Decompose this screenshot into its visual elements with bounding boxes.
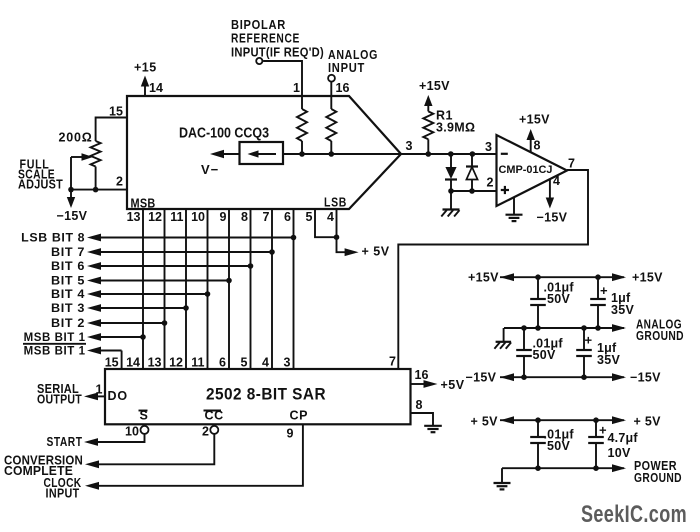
label ANALOG GROUND — [636, 318, 684, 344]
junction bit row to column pin 13 — [140, 334, 146, 340]
label C4 1uf 35V — [597, 341, 621, 367]
junction C5 to +5V rail — [535, 417, 541, 423]
svg-text:12: 12 — [148, 210, 162, 224]
svg-text:+15V: +15V — [468, 271, 499, 285]
capacitor C5 .01uf 50V — [530, 420, 546, 468]
pin 7 label comparator — [568, 156, 575, 170]
junction pin16 resistor to summing line — [329, 151, 335, 157]
node label BIT 7 — [51, 245, 85, 259]
pin 14 label — [149, 81, 163, 95]
label DO — [108, 389, 128, 403]
svg-text:35V: 35V — [597, 353, 621, 367]
node label LSB BIT 8 — [21, 231, 85, 245]
svg-text:BIT 3: BIT 3 — [51, 301, 85, 315]
pin 2 label comparator — [487, 176, 494, 190]
junction C6 to +5V rail — [593, 417, 599, 423]
wire DAC pin 12 column to SAR — [164, 209, 166, 369]
node label MSB BIT 1 — [24, 330, 86, 344]
svg-text:4.7μf: 4.7μf — [608, 431, 639, 445]
op-amp U3 CMP-01CJ outline — [497, 135, 568, 206]
svg-text:2: 2 — [116, 175, 123, 189]
svg-text:+: + — [600, 283, 608, 298]
svg-text:50V: 50V — [547, 439, 571, 453]
label LSB — [324, 196, 347, 210]
node label ANALOG INPUT — [328, 48, 378, 75]
resistor R1 3.9M — [419, 79, 450, 154]
wire DAC pin 13 column to SAR — [142, 209, 144, 369]
wire bit row BIT 4 — [87, 290, 208, 298]
junction pot bottom and pin2 wire — [93, 187, 99, 193]
wire comparator pin 4 to -15V — [537, 179, 568, 225]
label C3 .01uf 50V — [533, 337, 564, 363]
junction R1 to summing line — [426, 151, 432, 157]
junction bit row to column pin 6 — [291, 235, 297, 241]
svg-text:1: 1 — [293, 81, 300, 95]
rail -15V — [500, 373, 626, 381]
label S inverted — [139, 409, 148, 423]
junction wiper and pin2 wire — [68, 187, 74, 193]
wire DAC pin 9 column to SAR — [228, 209, 230, 369]
label +5V rail right — [634, 415, 662, 429]
terminal bipolar reference input — [256, 58, 262, 64]
node label SERIAL OUTPUT — [37, 382, 82, 407]
diode D1 — [445, 154, 457, 191]
junction C5 to power ground rail — [535, 465, 541, 471]
IC U2 2502 8-BIT SAR outline — [105, 369, 411, 424]
svg-text:DAC-100 CCQ3: DAC-100 CCQ3 — [179, 126, 269, 142]
capacitor C1 .01uf 50V — [530, 277, 546, 328]
terminal analog input — [328, 75, 335, 82]
wire bipolar input to pin 1 — [263, 61, 302, 96]
svg-text:7: 7 — [263, 210, 270, 224]
label FULL SCALE ADJUST — [18, 158, 63, 192]
svg-text:2: 2 — [487, 176, 494, 190]
pin 3 label DAC output — [406, 139, 413, 153]
wire bit row BIT 5 — [87, 277, 229, 285]
pin 16 label — [336, 81, 350, 95]
power -15V arrow below pot — [57, 190, 88, 223]
svg-text:16: 16 — [415, 368, 429, 382]
pin 8 label comparator — [534, 139, 541, 153]
node label START — [47, 435, 83, 449]
svg-text:8: 8 — [416, 398, 423, 412]
junction diode D1 bottom — [448, 188, 454, 194]
DAC bottom pin number labels 13-4 — [127, 210, 334, 224]
svg-text:BIT 4: BIT 4 — [51, 287, 85, 301]
pin 9 label — [287, 427, 294, 441]
svg-text:4: 4 — [553, 174, 560, 188]
svg-text:SeekIC.com: SeekIC.com — [581, 501, 687, 528]
junction bit row to column pin 12 — [162, 320, 168, 326]
junction C2 to +15V rail — [595, 274, 601, 280]
ground SAR pin 8 — [424, 426, 442, 432]
svg-text:BIT 5: BIT 5 — [51, 274, 85, 288]
wire DAC pin 10 column to SAR — [207, 209, 209, 369]
wire comparator pin 8 to +15V — [519, 113, 550, 153]
svg-text:5: 5 — [306, 210, 313, 224]
svg-text:2502 8-BIT SAR: 2502 8-BIT SAR — [206, 386, 326, 404]
svg-text:10: 10 — [125, 425, 139, 439]
junction C6 to power ground rail — [593, 465, 599, 471]
label C2 1uf 35V — [611, 291, 635, 317]
capacitor C4 1uf 35V polarized — [576, 328, 592, 377]
label +15V rail right — [632, 271, 663, 285]
V- output box — [240, 142, 284, 164]
wire diode bottoms to comparator pin 2 — [451, 190, 497, 192]
label DAC-100 CCQ3 — [179, 126, 269, 142]
junction C3 to -15V rail — [521, 374, 527, 380]
svg-text:−15V: −15V — [537, 211, 568, 225]
label C1 .01uf 50V — [544, 281, 575, 307]
svg-text:5: 5 — [241, 356, 248, 370]
pin 1 label SAR — [96, 383, 103, 397]
label V- — [201, 162, 219, 177]
pin 15 label — [109, 105, 123, 119]
wire analog ground to chassis — [503, 328, 505, 342]
label -15V rail right — [630, 371, 661, 385]
label C5 .01uf 50V — [544, 428, 575, 454]
wire DAC pin 11 column to SAR — [185, 209, 187, 369]
svg-text:+15V: +15V — [419, 79, 450, 93]
svg-text:+ 5V: + 5V — [362, 244, 390, 258]
label + 5V at DAC pin 4 — [362, 244, 390, 258]
rail +15V — [500, 273, 626, 281]
pin 10 label — [125, 425, 139, 439]
capacitor C2 1uf 35V polarized — [590, 277, 608, 328]
wire pin 2 to pot bottom — [71, 167, 127, 190]
svg-text:3: 3 — [485, 140, 492, 154]
svg-text:REFERENCE: REFERENCE — [231, 32, 300, 46]
wire serial output — [84, 393, 105, 401]
svg-text:6: 6 — [284, 210, 291, 224]
svg-text:LSB BIT 8: LSB BIT 8 — [21, 231, 85, 245]
ground earth power — [494, 483, 511, 489]
wire bit row MSB BIT 1 — [87, 333, 143, 341]
label MSB — [131, 196, 156, 210]
wire pin 15 to potentiometer — [96, 118, 127, 142]
rail analog ground — [504, 324, 626, 332]
junction bit row to column pin 10 — [205, 291, 211, 297]
wire DAC pin 8 column to SAR — [250, 209, 252, 369]
svg-text:8: 8 — [241, 210, 248, 224]
pin 2 label — [116, 175, 123, 189]
wire bit row BIT 6 — [87, 262, 251, 270]
resistor inside DAC on pin 1 — [297, 96, 307, 154]
svg-text:INPUT: INPUT — [328, 61, 365, 75]
svg-text:+: + — [585, 333, 593, 348]
watermark SeekIC.com — [581, 501, 687, 528]
wire MSB BIT 1 inverted to SAR pin 15 — [87, 347, 122, 369]
svg-text:+15V: +15V — [519, 113, 550, 127]
junction pin5 pin4 — [334, 234, 340, 240]
svg-text:INPUT: INPUT — [46, 487, 80, 501]
svg-text:13: 13 — [148, 356, 162, 370]
rail power ground — [502, 464, 626, 472]
ground chassis below diodes — [441, 210, 459, 217]
svg-text:ADJUST: ADJUST — [18, 178, 63, 192]
wire conversion complete — [85, 434, 214, 468]
wire DAC pin 6 column to SAR — [293, 209, 295, 369]
svg-text:INPUT(IF REQ'D): INPUT(IF REQ'D) — [231, 46, 324, 60]
svg-text:13: 13 — [127, 210, 141, 224]
node label MSB BIT 1 (inverted) — [23, 344, 86, 358]
capacitor C3 .01uf 50V — [516, 328, 532, 377]
svg-text:MSB BIT 1: MSB BIT 1 — [24, 330, 86, 344]
arrow V- external — [210, 150, 240, 158]
svg-text:14: 14 — [149, 81, 163, 95]
node label CLOCK INPUT — [44, 476, 82, 501]
label +15V rail left — [468, 271, 499, 285]
label -15V rail left — [466, 371, 497, 385]
label CMP-01CJ — [499, 164, 553, 176]
svg-text:3: 3 — [406, 139, 413, 153]
svg-text:10: 10 — [191, 210, 205, 224]
potentiometer wiper arrow — [71, 153, 93, 161]
wire bit row LSB BIT 8 — [87, 234, 294, 242]
power +15 label — [134, 61, 157, 75]
svg-text:+5V: +5V — [441, 378, 465, 392]
svg-text:BIPOLAR: BIPOLAR — [231, 18, 286, 32]
rail +5V — [500, 416, 626, 424]
svg-text:OUTPUT: OUTPUT — [37, 393, 82, 407]
ground comparator — [506, 215, 523, 221]
pin 7 label SAR — [389, 354, 396, 368]
svg-text:14: 14 — [126, 356, 140, 370]
junction C3 to analog ground rail — [521, 325, 527, 331]
label +5V rail left — [471, 415, 499, 429]
svg-text:GROUND: GROUND — [634, 471, 682, 485]
label CC inverted — [204, 409, 224, 423]
svg-text:15: 15 — [109, 105, 123, 119]
svg-text:16: 16 — [336, 81, 350, 95]
svg-text:+ 5V: + 5V — [471, 415, 499, 429]
svg-text:11: 11 — [191, 356, 204, 370]
wire DAC pin 7 column to SAR — [271, 209, 273, 369]
resistor inside DAC on pin 16 — [326, 96, 336, 154]
wire bit row BIT 3 — [87, 304, 186, 312]
svg-text:6: 6 — [219, 356, 226, 370]
comparator plus input mark — [501, 186, 509, 194]
node label BIPOLAR REFERENCE INPUT — [231, 18, 324, 60]
svg-text:7: 7 — [389, 354, 396, 368]
junction bit row to column pin 9 — [226, 278, 232, 284]
pin 4 label comparator — [553, 174, 560, 188]
wire bit row BIT 2 — [87, 319, 165, 327]
SAR top pin number labels — [105, 356, 291, 370]
pin 10 bubble — [141, 426, 149, 434]
svg-text:V−: V− — [201, 162, 219, 177]
svg-text:10V: 10V — [608, 446, 632, 460]
svg-text:+15V: +15V — [632, 271, 663, 285]
svg-text:BIT 2: BIT 2 — [51, 316, 85, 330]
svg-text:DO: DO — [108, 389, 128, 403]
svg-text:MSB BIT 1: MSB BIT 1 — [24, 344, 86, 358]
svg-text:4: 4 — [327, 210, 334, 224]
diode D2 — [466, 154, 478, 191]
svg-text:3.9MΩ: 3.9MΩ — [436, 121, 475, 135]
node label BIT 5 — [51, 274, 85, 288]
junction diode D2 top — [470, 151, 476, 157]
label 2502 8-BIT SAR — [206, 386, 326, 404]
junction diode D2 bottom — [469, 188, 475, 194]
ground chassis analog — [494, 342, 511, 349]
svg-text:7: 7 — [568, 156, 575, 170]
junction pin1 resistor to summing line — [299, 151, 305, 157]
resistor 200 ohm potentiometer — [59, 131, 101, 167]
svg-text:CP: CP — [290, 409, 309, 423]
junction C1 to +15V rail — [535, 274, 541, 280]
pin 3 label comparator — [485, 140, 492, 154]
svg-text:−15V: −15V — [57, 209, 88, 223]
node label CONVERSION COMPLETE — [4, 454, 83, 479]
svg-text:−15V: −15V — [630, 371, 661, 385]
node label BIT 2 — [51, 316, 85, 330]
svg-text:11: 11 — [170, 210, 183, 224]
svg-text:12: 12 — [169, 356, 183, 370]
svg-text:9: 9 — [220, 210, 227, 224]
wire analog input to pin 16 — [330, 81, 332, 96]
svg-text:15: 15 — [105, 356, 119, 370]
wire summing line to comparator — [283, 153, 497, 155]
junction C2 to analog ground rail — [595, 325, 601, 331]
junction bit row to column pin 7 — [269, 249, 275, 255]
svg-text:50V: 50V — [547, 292, 571, 306]
junction C4 to analog ground rail — [581, 325, 587, 331]
junction diode D1 top — [448, 151, 454, 157]
wire DAC pin 5 jog — [315, 209, 337, 237]
junction C4 to -15V rail — [581, 374, 587, 380]
label POWER GROUND — [634, 459, 682, 485]
pin 2 label SAR — [202, 425, 209, 439]
wire SAR pin 16 to +5V — [411, 380, 438, 388]
svg-text:+ 5V: + 5V — [634, 415, 662, 429]
wire power ground to earth — [501, 468, 503, 483]
label +5V at SAR pin 16 — [441, 378, 465, 392]
svg-text:LSB: LSB — [324, 196, 347, 210]
svg-text:2: 2 — [202, 425, 209, 439]
label R1 3.9M — [436, 108, 475, 134]
svg-text:BIT 7: BIT 7 — [51, 245, 85, 259]
junction bit row to column pin 11 — [183, 305, 189, 311]
wire start input — [84, 434, 145, 446]
svg-text:START: START — [47, 435, 83, 449]
label CP — [290, 409, 309, 423]
svg-text:4: 4 — [262, 356, 269, 370]
wire wiper down — [70, 157, 72, 190]
svg-text:+: + — [599, 423, 607, 438]
wire diode D1 to chassis ground — [450, 191, 452, 210]
junction C1 to analog ground rail — [535, 325, 541, 331]
svg-text:200Ω: 200Ω — [59, 131, 93, 145]
arrow inside V- box — [248, 150, 277, 157]
wire comparator output to SAR pin 7 — [398, 170, 588, 369]
node label BIT 4 — [51, 287, 85, 301]
pin 8 label SAR — [416, 398, 423, 412]
svg-text:9: 9 — [287, 427, 294, 441]
wire pin 14 to +15 arrow — [141, 76, 149, 97]
svg-text:ANALOG: ANALOG — [328, 48, 378, 62]
svg-text:50V: 50V — [533, 348, 557, 362]
svg-text:35V: 35V — [611, 303, 635, 317]
wire bit row BIT 7 — [87, 248, 272, 256]
wire clock input — [85, 424, 303, 490]
wire comparator ground stub — [513, 197, 515, 215]
node label BIT 6 — [51, 259, 85, 273]
wire DAC pin 4 to +5V — [337, 209, 359, 256]
svg-text:8: 8 — [534, 139, 541, 153]
junction bit row to column pin 8 — [248, 263, 254, 269]
node label BIT 3 — [51, 301, 85, 315]
pin 1 label — [293, 81, 300, 95]
op-amp U1 DAC-100 CCQ3 outline — [127, 96, 401, 209]
comparator minus input mark — [501, 153, 508, 155]
wire SAR pin 8 to ground — [411, 413, 434, 426]
svg-text:+15: +15 — [134, 61, 157, 75]
pin 2 bubble — [210, 426, 218, 434]
svg-text:−15V: −15V — [466, 371, 497, 385]
svg-text:MSB: MSB — [131, 196, 156, 210]
svg-text:BIT 6: BIT 6 — [51, 259, 85, 273]
svg-text:CMP-01CJ: CMP-01CJ — [499, 164, 553, 176]
svg-text:GROUND: GROUND — [636, 329, 684, 343]
pin 16 label SAR — [415, 368, 429, 382]
capacitor C6 4.7uf 10V polarized — [588, 420, 607, 468]
label C6 4.7uf 10V — [608, 431, 639, 460]
svg-text:3: 3 — [284, 356, 291, 370]
